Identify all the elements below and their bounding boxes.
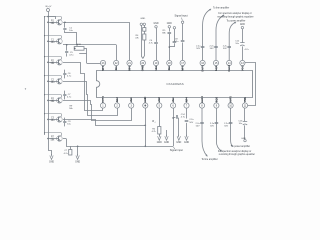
svg-text:VEE: VEE xyxy=(243,97,247,103)
svg-text:50V: 50V xyxy=(189,122,193,124)
svg-text:To power amplifier: To power amplifier xyxy=(231,145,250,148)
svg-text:GND: GND xyxy=(154,23,159,25)
svg-text:GND: GND xyxy=(143,97,147,103)
svg-text:Signal input: Signal input xyxy=(170,149,183,152)
svg-text:GND: GND xyxy=(240,24,245,26)
svg-text:50V: 50V xyxy=(196,126,200,128)
svg-text:recording through graphic equa: recording through graphic equalizer xyxy=(219,153,255,156)
svg-text:To line amplifier: To line amplifier xyxy=(213,6,229,9)
svg-text:To power amplifier: To power amplifier xyxy=(227,20,246,23)
svg-text:OUT4: OUT4 xyxy=(200,96,204,104)
svg-text:GND: GND xyxy=(157,142,162,144)
svg-text:NF4: NF4 xyxy=(184,97,188,103)
svg-text:GND: GND xyxy=(167,23,172,25)
svg-text:EQ1: EQ1 xyxy=(214,65,218,71)
svg-text:VCC: VCC xyxy=(240,65,244,71)
svg-text:OUT3: OUT3 xyxy=(101,96,105,104)
svg-text:For spectrum analyzer display: For spectrum analyzer display or xyxy=(218,12,252,15)
svg-text:50V: 50V xyxy=(224,126,228,128)
svg-text:IN4: IN4 xyxy=(171,97,175,102)
svg-text:GND: GND xyxy=(49,161,54,163)
svg-text:GND: GND xyxy=(184,142,189,144)
svg-text:CXA1082AS: CXA1082AS xyxy=(166,82,183,86)
svg-text:50V: 50V xyxy=(210,126,214,128)
svg-text:NF2: NF2 xyxy=(181,65,185,71)
svg-text:OUT5: OUT5 xyxy=(229,96,233,104)
svg-text:To line amplifier: To line amplifier xyxy=(202,158,218,161)
svg-text:EQ2: EQ2 xyxy=(214,96,218,102)
svg-text:GND: GND xyxy=(241,138,246,140)
svg-text:VR1: VR1 xyxy=(154,65,158,71)
svg-text:GND: GND xyxy=(176,142,181,144)
svg-text:B(+)V: B(+)V xyxy=(46,6,52,8)
svg-text:OUT2: OUT2 xyxy=(227,64,231,72)
svg-text:L: L xyxy=(155,122,156,124)
svg-text:50V: 50V xyxy=(223,48,227,50)
svg-text:50V: 50V xyxy=(196,48,200,50)
svg-text:RP1: RP1 xyxy=(127,65,131,71)
svg-text:NF1: NF1 xyxy=(101,65,105,71)
svg-text:GND: GND xyxy=(75,161,80,163)
svg-text:GND: GND xyxy=(140,18,145,20)
svg-text:Signal input: Signal input xyxy=(175,15,188,18)
svg-text:GND: GND xyxy=(141,65,145,71)
svg-text:50V: 50V xyxy=(210,48,214,50)
svg-text:GND: GND xyxy=(164,142,169,144)
svg-text:NF3: NF3 xyxy=(115,97,119,103)
svg-text:IN1: IN1 xyxy=(114,66,118,71)
svg-text:VR2: VR2 xyxy=(157,96,161,102)
svg-text:OUT1: OUT1 xyxy=(201,64,205,72)
svg-text:IN3: IN3 xyxy=(129,97,133,102)
svg-text:For spectrum analyzer display: For spectrum analyzer display or xyxy=(218,150,252,153)
svg-text:recording through graphic equa: recording through graphic equalizer xyxy=(217,16,253,19)
svg-text:IN2: IN2 xyxy=(167,66,171,71)
